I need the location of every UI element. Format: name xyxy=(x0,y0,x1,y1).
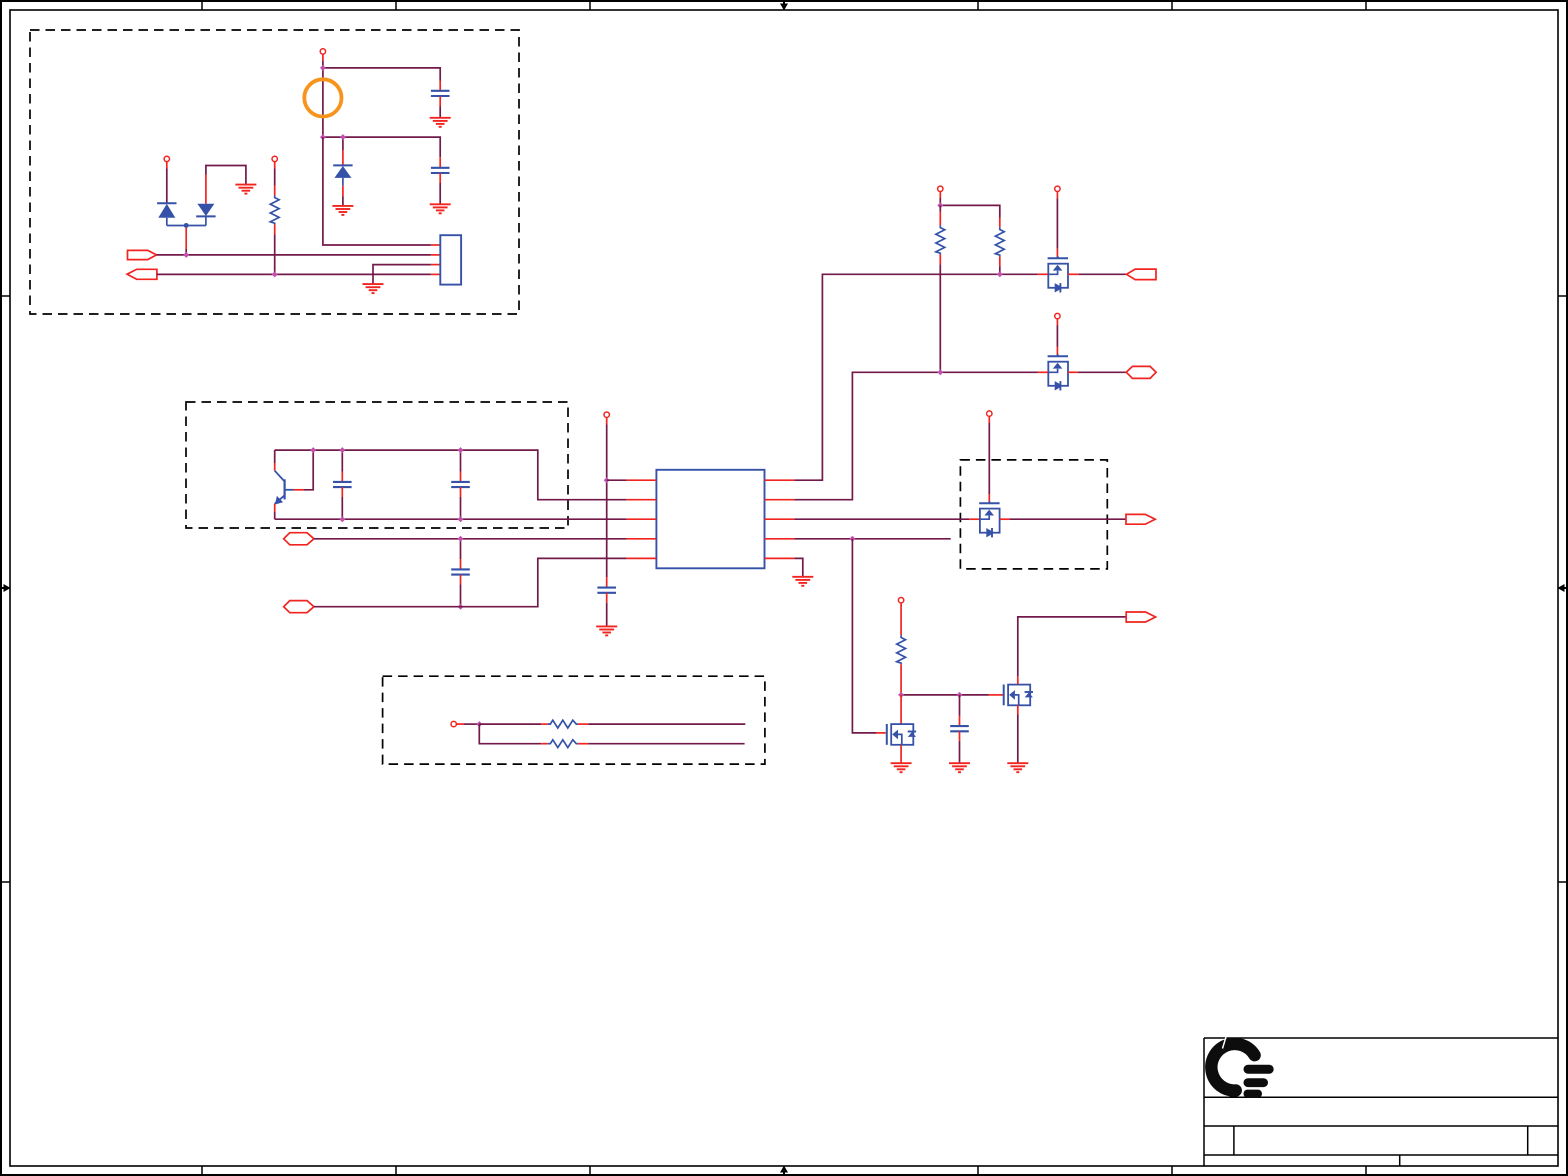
resistor R4 pin right xyxy=(578,723,589,725)
logo bar 3 xyxy=(1244,1090,1263,1098)
wire IC row5 to ground xyxy=(794,558,803,576)
resistor R1 pin bottom xyxy=(939,254,941,264)
wire P1 stub xyxy=(322,54,324,61)
IC U1 left pins xyxy=(627,480,657,558)
junction gate node xyxy=(898,692,904,698)
diode D3 pin anode xyxy=(342,150,344,165)
capacitor C2 pin bottom xyxy=(439,173,441,183)
wire 1 (port A to connector) xyxy=(157,254,431,256)
MOSFET M4 gate pin xyxy=(876,732,886,734)
junction row4 branch xyxy=(849,536,855,542)
blue junction dot xyxy=(184,223,189,228)
wire connector pin3 to ground xyxy=(373,265,431,284)
capacitor C1 pin top xyxy=(439,81,441,91)
dashed group box 4 (series resistor options) xyxy=(383,676,765,764)
wire M5 source to ground xyxy=(1017,715,1019,763)
MOSFET M4 (N-ch) xyxy=(887,724,916,745)
ground G6 xyxy=(596,626,617,635)
wire P4 stub xyxy=(606,417,608,424)
wire P7 stub xyxy=(1056,319,1058,326)
ground G2 xyxy=(235,185,256,194)
wire P6 to M1 gate xyxy=(1056,199,1058,249)
junction P5 node xyxy=(937,202,943,208)
wire P6 stub xyxy=(1056,192,1058,199)
power pin P2 xyxy=(164,156,169,161)
MOSFET M4 source pin xyxy=(900,745,902,763)
port H xyxy=(1126,612,1155,622)
port E xyxy=(1127,269,1157,280)
IC U1 right pins xyxy=(765,480,795,558)
resistor R (vertical) xyxy=(270,195,279,224)
resistor R pin top xyxy=(274,186,276,196)
resistor R4 (horizontal) xyxy=(548,720,578,728)
capacitor C7 xyxy=(950,726,969,731)
wire to R4 xyxy=(479,723,541,725)
zone tick bottom 6 xyxy=(1365,1166,1367,1175)
ground G8 xyxy=(891,763,912,772)
resistor R5 pin right xyxy=(578,743,589,745)
resistor R3 (vertical) xyxy=(897,635,906,664)
power pin P5 xyxy=(938,186,943,191)
zone tick right 2 xyxy=(1558,881,1567,883)
diode D2 pin top xyxy=(205,175,207,204)
power pin P9 xyxy=(898,598,903,603)
zone tick bottom 5 xyxy=(1171,1166,1173,1175)
ground G9 xyxy=(949,763,970,772)
wire D2 top to ground arm xyxy=(206,166,246,185)
diode D1 (TVS, cathode up) xyxy=(157,203,176,225)
wire IC row2 up to M2 row xyxy=(794,372,1038,499)
ground G4 xyxy=(430,204,451,213)
wire main down to connector row xyxy=(323,137,431,245)
wire P1 to node xyxy=(322,61,324,68)
power pin VBAT (P1) xyxy=(320,49,325,54)
MOSFET M1 gate pin xyxy=(1056,249,1058,258)
capacitor C7 bottom stub xyxy=(959,731,961,741)
wire emitter to bottom rail xyxy=(274,512,276,519)
dashed group box 2 (crystal section) xyxy=(186,402,568,528)
resistor R4 pin left xyxy=(541,723,548,725)
capacitor C1 pin bottom xyxy=(439,96,441,106)
center arrow right xyxy=(1558,584,1568,592)
center arrow left xyxy=(1,584,11,592)
wire R2 to M1 row xyxy=(999,266,1001,274)
diode D3 (cathode up) xyxy=(333,165,352,185)
wire C2 to ground xyxy=(439,183,441,204)
capacitor C1 xyxy=(431,91,450,96)
resistor R5 (horizontal) xyxy=(548,740,578,748)
wire P5 node to R2 top xyxy=(940,205,1000,217)
zone tick top 2 xyxy=(395,1,397,10)
capacitor C6 top stub xyxy=(606,577,608,587)
port F (bidirectional) xyxy=(1126,366,1156,378)
title block frame xyxy=(1204,1038,1558,1166)
wire node to C1 top xyxy=(323,68,440,81)
zone tick left 2 xyxy=(1,881,10,883)
MOSFET M5 gate pin xyxy=(989,694,1004,696)
wire base to top rail xyxy=(304,450,313,490)
wire P5 stub xyxy=(939,192,941,199)
resistor R pin bottom xyxy=(274,224,276,234)
MOSFET M1 (P-ch load switch) xyxy=(1048,256,1068,292)
transistor Q1 base pin xyxy=(294,489,305,491)
capacitor C4 top stub xyxy=(460,450,462,471)
zone tick top 3 xyxy=(589,1,591,10)
resistor R3 pin bottom xyxy=(900,664,902,695)
power pin P4 xyxy=(604,412,609,417)
resistor R2 (vertical) xyxy=(995,227,1004,256)
resistor R2 pin bottom xyxy=(999,256,1001,266)
port C (bidirectional) xyxy=(284,533,314,545)
connector J1 pins xyxy=(431,245,440,274)
junction base/top rail xyxy=(310,447,316,453)
capacitor C3 bottom stub xyxy=(341,487,343,497)
capacitor C4 bottom stub xyxy=(460,487,462,497)
power pin P8 (M3 gate) xyxy=(987,411,992,416)
zone tick bottom 4 xyxy=(977,1166,979,1175)
wire P8 to M3 gate xyxy=(988,423,990,494)
zone tick bottom 1 xyxy=(201,1166,203,1175)
wire top rail xyxy=(275,450,627,500)
junction rail / IC pin1 xyxy=(604,477,610,483)
wire R to wire2 xyxy=(274,235,276,275)
connector J1 body xyxy=(440,235,461,284)
capacitor C7 top stub xyxy=(959,695,961,716)
wire R5 dangling xyxy=(588,743,744,745)
resistor R3 pin top xyxy=(900,603,902,635)
wire P2 stub xyxy=(166,162,168,169)
junction node top xyxy=(320,65,326,71)
resistor R1 pin top xyxy=(939,205,941,211)
wire node2 to D3 xyxy=(342,137,344,150)
MOSFET M2 gate pin xyxy=(1056,347,1058,356)
IC U1 body xyxy=(656,470,764,569)
company logo C mark xyxy=(1211,1037,1254,1091)
wire P7 to M2 gate xyxy=(1056,326,1058,347)
wire IC row3 to M3 xyxy=(794,518,969,520)
wire P2 to D1 xyxy=(166,169,168,204)
wire gate node row xyxy=(901,694,988,696)
wire main vertical through current loop xyxy=(322,68,324,137)
ground G10 xyxy=(1007,763,1028,772)
MOSFET M1 drain pin xyxy=(1068,273,1079,275)
resistor R1 (vertical) xyxy=(936,225,945,254)
dashed group box 3 (pass FET section) xyxy=(960,460,1107,569)
junction node2 dots xyxy=(320,134,326,140)
ground G5 xyxy=(363,284,384,293)
logo bar 2 xyxy=(1244,1078,1269,1087)
wire 2 (port B to connector) xyxy=(157,273,431,275)
capacitor C3 top stub xyxy=(341,450,343,471)
wire IC row4 dangling xyxy=(794,538,951,540)
wire left drop to Q1 collector xyxy=(274,450,276,463)
wire P3 to R xyxy=(274,169,276,186)
capacitor C6 bottom stub xyxy=(606,593,608,603)
transistor Q1 collector pin xyxy=(274,463,276,471)
wire bottom rail (row3 to IC) xyxy=(275,518,627,520)
zone tick left 1 xyxy=(1,295,10,297)
transistor Q1 xyxy=(275,471,294,505)
wire D3 to ground xyxy=(342,197,344,206)
wire M5 drain to port H xyxy=(1018,617,1126,677)
junction on wire2 xyxy=(272,271,278,277)
resistor R2 pin top xyxy=(999,218,1001,228)
ground G7 xyxy=(792,577,813,586)
MOSFET M3 gate pin xyxy=(988,494,990,503)
zone tick top 6 xyxy=(1365,1,1367,10)
blue link wire D1-D2 xyxy=(167,225,206,227)
wire P10 stub xyxy=(457,723,465,725)
port D (bidirectional) xyxy=(284,601,314,613)
MOSFET M2 source pin xyxy=(1038,371,1048,373)
wire P8 stub xyxy=(988,416,990,423)
zone tick bottom 3 xyxy=(589,1166,591,1175)
wire R1 down to M2 row xyxy=(939,264,941,372)
wire row4 branch down to M4 gate xyxy=(852,539,876,733)
wire M1 drain to port E xyxy=(1079,273,1127,275)
power pin P6 (M1 gate) xyxy=(1055,186,1060,191)
port G xyxy=(1126,514,1155,524)
center arrow bottom xyxy=(780,1166,788,1176)
zone tick right 1 xyxy=(1558,295,1567,297)
MOSFET M3 drain pin xyxy=(1000,518,1010,520)
wire M3 drain to port G xyxy=(1010,518,1126,520)
wire blue dot down to wire1 xyxy=(185,228,187,249)
wire P3 stub xyxy=(274,162,276,169)
zone tick top 4 xyxy=(977,1,979,10)
resistor R5 pin left xyxy=(541,743,548,745)
wire row4 from port C to IC xyxy=(314,538,627,540)
zone tick bottom 2 xyxy=(395,1166,397,1175)
power pin P3 xyxy=(272,156,277,161)
capacitor C5 bottom stub xyxy=(460,575,462,585)
junction P10 node xyxy=(476,721,482,727)
wire M2 drain to port F xyxy=(1078,371,1126,373)
wire IC row1 up to M1 row xyxy=(794,274,1037,480)
current probe loop (orange) xyxy=(304,79,341,116)
transistor Q1 emitter pin xyxy=(274,504,276,512)
diode D2 (cathode down) xyxy=(196,204,215,226)
ground G3 xyxy=(332,206,353,215)
wire P4 rail down xyxy=(606,425,608,578)
MOSFET M5 (N-ch) xyxy=(1004,685,1033,706)
MOSFET M4 drain pin xyxy=(900,695,902,724)
MOSFET M2 drain pin xyxy=(1068,371,1078,373)
wire C1 to ground xyxy=(439,107,441,118)
center arrow top xyxy=(780,1,788,11)
wire node2 to C2 top xyxy=(323,137,440,157)
wire port D to IC row5 xyxy=(314,558,627,606)
capacitor C4 xyxy=(451,482,470,487)
MOSFET M3 source pin xyxy=(969,518,979,520)
port A (to antenna) xyxy=(128,250,157,259)
MOSFET M5 source pin xyxy=(1017,705,1019,714)
port B (from receiver) xyxy=(127,269,157,279)
capacitor C2 xyxy=(431,168,450,173)
dashed group box 1 (top-left RF section) xyxy=(30,30,519,314)
capacitor C5 top stub xyxy=(460,539,462,559)
wire rail to pin1 xyxy=(607,479,627,481)
capacitor C5 xyxy=(451,569,470,574)
zone tick top 1 xyxy=(201,1,203,10)
logo bar 1 xyxy=(1244,1065,1274,1074)
capacitor C3 xyxy=(333,482,352,487)
MOSFET M5 drain pin xyxy=(1017,676,1019,684)
capacitor C6 xyxy=(597,588,616,593)
MOSFET M3 (P-ch pass FET) xyxy=(979,501,999,537)
diode D3 pin bottom xyxy=(342,186,344,197)
junction on wire1 xyxy=(183,252,189,258)
ground G1 xyxy=(430,118,451,127)
capacitor C2 pin top xyxy=(439,157,441,167)
zone tick top 5 xyxy=(1171,1,1173,10)
power pin P7 (M2 gate) xyxy=(1055,313,1060,318)
wire R4 dangling xyxy=(588,723,745,725)
MOSFET M2 (P-ch load switch) xyxy=(1048,354,1068,390)
power pin P10 xyxy=(451,721,456,726)
MOSFET M1 source pin xyxy=(1038,273,1049,275)
wire down to R5 xyxy=(479,724,541,744)
